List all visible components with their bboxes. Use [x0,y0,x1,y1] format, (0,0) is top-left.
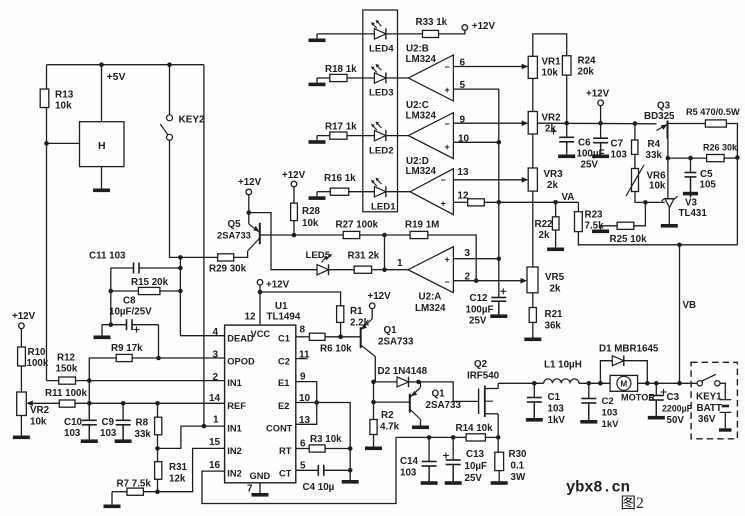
wire pin6 rt [296,448,309,450]
svg-text:−: − [445,62,450,72]
wire R1 to pin8 row [340,322,342,336]
junction E2 [314,400,319,405]
+12V terminal Q5 [246,189,252,195]
wire LED5 to R31 [329,269,355,271]
wire R8 bottom to R31 [157,435,159,462]
svg-text:R31 2k: R31 2k [348,251,380,262]
svg-text:VR3: VR3 [544,169,564,180]
junction pin3 feedback [497,256,502,261]
wire R15 right [160,290,181,292]
svg-text:0.1: 0.1 [511,461,525,472]
svg-text:R23: R23 [585,210,604,221]
svg-text:33k: 33k [646,150,663,161]
wire R26 to right edge [724,157,737,159]
junction VB top [677,243,682,248]
svg-text:R18 1k: R18 1k [325,64,357,75]
resistor R28 [291,203,298,221]
wiper arrow VR3 [522,179,528,181]
svg-text:2.2k: 2.2k [350,318,370,329]
switch KEY2 [167,115,173,121]
svg-text:VR1: VR1 [542,57,562,68]
svg-text:100µF: 100µF [466,304,494,315]
svg-text:1: 1 [213,415,219,426]
svg-text:R25 10k: R25 10k [610,234,648,245]
transistor Q3 [667,121,669,139]
ground R7 [111,492,113,505]
resistor R25 [617,222,634,229]
svg-text:LM324: LM324 [406,166,437,177]
wire pin2 to VR5 [453,280,521,282]
wire R3 to col [325,448,350,450]
VR6 arrow [626,165,644,196]
wire R22 stub [555,202,557,217]
svg-text:103: 103 [64,428,81,439]
svg-text:U2:A: U2:A [419,292,442,303]
wire +5V right drop [203,65,205,426]
svg-text:LM324: LM324 [415,303,446,314]
svg-text:10µF/25V: 10µF/25V [109,307,152,318]
svg-text:103: 103 [611,150,628,161]
op-amp U2:D [410,169,453,215]
svg-text:C6: C6 [578,138,591,149]
svg-text:+12V: +12V [238,177,262,188]
svg-text:2SA733: 2SA733 [378,337,414,348]
junction LED5 row [382,267,387,272]
wire Q2 source down [497,414,499,452]
junction pin2 [474,278,479,283]
resistor R11 [59,400,75,407]
wire junction to U2:A [385,269,409,271]
wire col R12-R11 [88,381,90,418]
wire R19 to U2:A pin2 [428,235,476,281]
wire pin9 to VR2 lead [453,122,521,124]
op-amp U2:C [408,113,453,159]
svg-text:R12: R12 [57,353,76,364]
ground C8 [101,325,103,336]
junction RT col [348,446,353,451]
svg-text:10µF: 10µF [465,461,488,472]
wire left bus R13 to R12 row [46,108,48,381]
wire motor to C3 [638,382,698,384]
svg-text:DEAD: DEAD [227,334,254,344]
wire VR1 to VR2 [532,78,534,111]
wire pin10 to feedback [453,141,498,143]
wiper arrow VR5 [522,280,527,282]
wire +5V to H top [101,65,103,122]
junction +5V on IN1 [202,424,207,429]
svg-text:8: 8 [300,325,306,336]
wire gnd to LED4 [317,33,374,35]
ground C5 [690,177,692,192]
svg-text:C1: C1 [548,392,561,403]
capacitor C8 [102,324,127,326]
svg-text:7: 7 [247,484,253,495]
svg-text:C11 103: C11 103 [89,251,126,262]
IC U1 TL1494 box [225,325,296,483]
junction C6 [564,121,569,126]
junction R28 bottom [292,233,297,238]
svg-text:IN1: IN1 [227,378,241,388]
svg-text:C13: C13 [466,449,485,460]
wire pin6 to VR1 lead [453,66,521,68]
junction R12/col [87,378,92,383]
ground Q1 lower [420,420,422,426]
svg-text:IRF540: IRF540 [467,371,500,382]
svg-text:R7 7.5k: R7 7.5k [117,479,152,490]
svg-text:IN1: IN1 [227,424,241,434]
wire R12 left to bus [47,380,59,382]
wire R4 to VR6 [634,154,636,168]
svg-text:KEY2: KEY2 [179,115,206,126]
ground C9 [122,425,124,440]
resistor R7 [127,488,143,495]
wire VCC rail to R1 [260,292,341,306]
wire KEY1 to battery [720,383,725,399]
svg-text:36k: 36k [545,321,562,332]
junction C14 top [427,435,432,440]
junction key column R15 [178,289,183,294]
ground RT/CT [349,470,351,480]
wire VR2 to VR3 [532,134,534,168]
resistor R16 [330,188,348,195]
svg-text:IN2: IN2 [227,469,241,479]
svg-text:50V: 50V [667,415,685,426]
wiper arrow VR2 [522,122,528,124]
motor M [610,375,638,391]
wire +12V to Q5 emitter [248,195,250,224]
junction R11/C10 [87,401,92,406]
wire R25 to gnd [601,225,618,227]
wire pin13 to VR3 lead [453,179,521,181]
svg-text:R27 100k: R27 100k [336,220,379,231]
svg-text:2k: 2k [539,230,550,241]
wire rail to R4 [634,124,636,141]
junction motor right [645,381,650,386]
svg-text:TL431: TL431 [679,208,708,219]
wire R29 to key column [180,256,217,258]
ground C1 [533,402,535,418]
junction R8 top [155,401,160,406]
wire emitter branch to LED5 [249,213,317,270]
svg-text:103: 103 [400,468,417,479]
svg-text:R17 1k: R17 1k [325,122,357,133]
svg-text:−: − [441,175,446,185]
capacitor C7 [600,123,602,138]
wire D2 out [409,381,422,383]
junction pin10 feedback [497,140,502,145]
svg-text:+12V: +12V [12,311,36,322]
ground C14 [428,466,430,481]
ground VR2 left [20,416,22,436]
resistor R23 [575,212,583,232]
svg-text:LED2: LED2 [369,146,394,157]
junction VB rail [677,381,682,386]
svg-text:VR5: VR5 [545,272,565,283]
junction Q3/R26 row [666,156,671,161]
wire gnd to R16 [317,191,330,193]
wire H left lead [47,142,80,144]
+12V terminal mid [598,100,604,106]
wire IN2 pin16 row [202,437,396,503]
resistor R10 [18,347,26,366]
svg-text:R2: R2 [381,410,394,421]
wire D1 loop right [624,361,648,384]
wire VR5 to R21 [532,293,534,308]
svg-text:LED4: LED4 [369,44,394,55]
wire +5V rail [47,64,204,66]
resistor R26 [707,155,725,162]
capacitor C5 [690,158,692,172]
svg-text:4: 4 [213,327,219,338]
wire pin3 to feedback [453,258,498,260]
svg-text:3: 3 [465,248,471,259]
wire left bus from +5V [46,65,48,89]
wire +12V to rail [600,106,602,124]
ground C13 [452,465,454,482]
junction C9 top [121,401,126,406]
wire R28 to rail [293,221,295,235]
svg-text:1: 1 [397,258,403,269]
svg-text:TL1494: TL1494 [267,312,301,323]
svg-text:REF: REF [227,401,246,411]
wire LED4 to R33 [386,33,423,35]
junction R9/OPOD [156,356,161,361]
resistor R29 [218,254,234,261]
svg-text:LED1: LED1 [371,202,396,213]
svg-text:C9: C9 [102,417,115,428]
junction source/R14 [496,435,501,440]
junction D1 left [598,381,603,386]
wire R31 to junction [372,269,385,271]
wire R15 left [111,290,139,292]
wire gnd to R18 [317,77,330,79]
svg-text:Q1: Q1 [384,325,398,336]
wiper arrow VR1 [522,66,528,68]
resistor R30 [495,452,504,470]
wire Q3 collector to R5 [668,123,706,125]
thermistor VR6 [632,169,639,192]
capacitor C2 [588,383,590,398]
svg-text:R11 100k: R11 100k [45,388,87,399]
ground U1 [259,490,261,493]
svg-text:+12V: +12V [368,291,392,302]
capacitor C4 [296,469,319,471]
svg-text:MOTOR: MOTOR [621,393,655,403]
junction left bus / H sensor [44,141,49,146]
junction key column R29 [178,255,183,260]
wire R28 to +12V [293,187,295,203]
wire output rail [498,382,544,384]
wire E2 stub [296,402,317,404]
wire to V3 gate [645,201,664,203]
junction CT col [348,468,353,473]
svg-text:R6 10k: R6 10k [320,344,352,355]
svg-text:10k: 10k [55,101,72,112]
resistor R27 [343,231,360,238]
svg-text:+12V: +12V [266,280,290,291]
junction R15 left [109,289,114,294]
ground R25 [600,226,602,230]
ground LED4 [316,34,318,39]
capacitor C13 [452,437,454,460]
svg-text:12k: 12k [169,474,186,485]
junction C1 rail [532,381,537,386]
resistor R12 [59,377,76,384]
svg-text:C1: C1 [278,334,290,344]
ground R22 [555,230,557,248]
svg-text:IN2: IN2 [227,446,241,456]
capacitor C1 [533,383,535,397]
svg-text:105: 105 [700,180,717,191]
svg-text:2k: 2k [547,180,558,191]
+12V terminal U1 [257,280,263,286]
resistor R19 [410,231,428,238]
svg-text:E1: E1 [278,378,289,388]
junction R1/R6 [338,335,343,340]
svg-text:C8: C8 [123,296,136,307]
svg-text:BD325: BD325 [644,111,675,122]
wire R31 to R7 row [157,479,159,491]
ground C6 [566,142,568,155]
svg-text:R5 470/0.5W: R5 470/0.5W [686,107,740,117]
svg-text:R21: R21 [545,309,564,320]
svg-text:L1 10µH: L1 10µH [544,360,582,371]
junction R22 top [553,200,558,205]
svg-text:R13: R13 [55,90,74,101]
svg-text:25V: 25V [581,160,599,171]
svg-text:150k: 150k [56,364,78,375]
resistor R9 [116,354,132,361]
ground C3 [655,400,657,416]
svg-text:R33 1k: R33 1k [416,17,448,28]
svg-text:3: 3 [213,350,219,361]
svg-text:LED3: LED3 [369,88,394,99]
capacitor C9 [122,403,124,420]
svg-text:C4 10µ: C4 10µ [303,482,335,493]
wire D2 to Q2 gate [419,382,478,402]
wire IN1 pin2 row [76,380,225,382]
svg-text:LM324: LM324 [406,54,437,65]
svg-text:−: − [445,119,450,129]
junction C7 +12V [598,121,603,126]
svg-text:Q3: Q3 [657,101,671,112]
wire +5V to KEY2 [169,65,171,115]
svg-text:14: 14 [209,393,221,404]
svg-text:VR2: VR2 [542,113,562,124]
svg-text:9: 9 [300,372,306,383]
capacitor C6 [566,123,568,137]
battery BATT 36V [720,399,732,401]
wire gnd to R17 [317,135,330,137]
svg-text:103: 103 [602,408,618,419]
junction key column C11 [178,266,183,271]
wire pin5 feedback [453,89,498,297]
svg-text:2SA733: 2SA733 [426,400,462,411]
ground R2 [373,435,375,447]
junction R26 right [735,155,740,160]
svg-text:V3: V3 [685,198,698,209]
potentiometer VR3 [528,168,537,191]
wire VR6 to V3 ref [635,192,645,203]
resistor R4 [632,140,638,154]
junction Q1b base row [371,400,376,405]
svg-text:R15 20k: R15 20k [131,277,169,288]
svg-text:CT: CT [279,469,292,479]
+12V terminal at R33 [462,25,468,31]
wire R16 to LED1 [349,191,375,193]
wire C11 col down [110,268,112,325]
wire IN1 pin1 row [158,426,225,448]
resistor on pin 12 [468,199,485,206]
wire R17 to LED2 [347,135,374,137]
diode D1 [612,356,624,366]
svg-text:R24: R24 [578,56,597,67]
junction R7 row [155,489,160,494]
svg-text:VR2: VR2 [30,405,50,416]
svg-text:2200µF: 2200µF [662,404,693,414]
wire LED1 to U2:D out [386,191,410,193]
wire R9 left to R12 row [89,358,116,381]
wire VB vertical [679,245,681,383]
svg-text:R31: R31 [169,462,188,473]
wire KEY2 to C11 column [170,140,181,257]
wire R14 right [485,436,498,438]
wire VR1 top to R24 [533,34,567,56]
diode D2 [397,377,409,387]
svg-text:7.5k: 7.5k [585,221,605,232]
svg-text:3W: 3W [511,472,526,483]
wire Q5 base rail [261,234,343,236]
svg-text:R28: R28 [302,206,321,217]
svg-text:25V: 25V [469,316,487,327]
ground R21 [532,322,534,337]
wire R33 to +12V [439,30,465,34]
svg-text:R10: R10 [28,347,47,358]
svg-text:LED5: LED5 [306,250,331,261]
wire R27 to R19 [360,234,410,236]
transistor Q1 (driver) 2SA733 [360,327,362,348]
svg-text:E2: E2 [278,401,289,411]
wire L1 to motor [579,382,610,384]
svg-text:BATT: BATT [697,403,722,414]
junction +5V/H [99,62,104,67]
svg-text:C12: C12 [470,293,489,304]
svg-text:C5: C5 [700,169,713,180]
svg-text:R8: R8 [136,418,149,429]
resistor R1 [337,306,344,323]
wire VR3 to VR5 [532,191,534,267]
wire Q3 emitter down to V3 [667,139,669,199]
junction VR6/V3/R25 [643,200,648,205]
svg-text:C14: C14 [400,456,419,467]
svg-text:R16 1k: R16 1k [324,173,356,184]
shunt regulator V3 TL431 [664,198,675,200]
junction C5 top [688,156,693,161]
svg-text:+: + [445,85,450,95]
svg-text:Q2: Q2 [474,359,488,370]
wire to D2 [374,381,398,383]
svg-text:10k: 10k [30,417,47,428]
+12V terminal Q1 [369,303,375,309]
wire R26 row [668,157,707,159]
svg-text:10k: 10k [302,218,319,229]
svg-text:2SA733: 2SA733 [217,230,251,241]
wire R10 to VR2 [20,366,22,392]
ground C7 [600,143,602,155]
svg-text:12: 12 [245,312,257,323]
svg-text:2: 2 [213,372,219,383]
junction pin12/feedback [497,200,502,205]
